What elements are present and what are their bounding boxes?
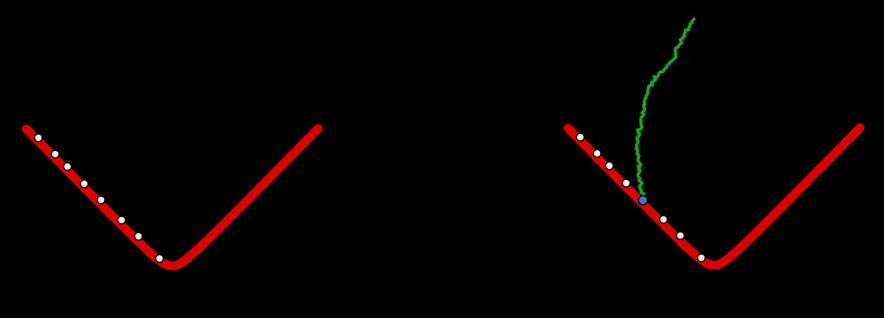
ball L8 (left curve) [156,255,164,263]
ball L2 (left curve) [51,150,59,158]
ball R6 (right curve) [677,232,685,240]
ball L1 (left curve) [35,134,43,142]
ball L5 (left curve) [97,196,105,204]
ball L6 (left curve) [118,216,126,224]
ball R5 (right curve) [660,216,668,224]
left potential curve (red V) [26,128,318,266]
ball R1 (right curve) [576,133,584,141]
ball L3 (left curve) [64,163,72,171]
ball R3 (right curve) [606,162,614,170]
blue ball (walker) on right curve [638,196,647,205]
ball R7 (right curve) [698,254,706,262]
ball L4 (left curve) [80,180,88,188]
right potential curve (red V) [568,128,860,266]
green random-walk trajectory [636,19,694,197]
ball R4 (right curve) [622,179,630,187]
ball L7 (left curve) [135,232,143,240]
ball R2 (right curve) [593,150,601,158]
